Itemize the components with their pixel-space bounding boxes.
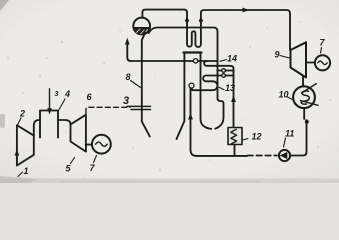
shaft to generator [306,62,315,64]
leader line label 12 [243,139,249,141]
duct from chamber to gas turbine [58,120,71,125]
svg-text:1: 1 [24,166,29,176]
valve on superheated steam line (right) [199,17,203,24]
leader line label 5 [71,158,75,164]
condenser 10 [293,84,318,108]
svg-text:12: 12 [252,132,262,142]
condensate rail [197,155,248,157]
compressor 2 (gas-turbine set, bottom left) [17,125,34,165]
leader line label 11 [284,138,286,147]
condensate pump 11 [279,150,290,161]
compressor discharge duct to combustion chamber [34,120,40,136]
gas turbine 5 [71,115,86,152]
svg-text:2: 2 [19,109,25,119]
valve on saturated steam line (left) [185,17,189,24]
leader line label 7 left [94,156,97,163]
generator 7 (right) [315,55,330,70]
superheater hairpin tubes in boiler top [187,28,201,48]
boiler casing 8 [177,53,212,140]
shaft turbine-generator [86,144,92,146]
wire: drum top to steam valve line [142,10,187,28]
steam drum [133,18,150,35]
leader line label 14 [220,60,227,62]
feedwater riser to drum with arrow [125,38,131,61]
coil headers with fittings to heater riser [218,69,234,78]
svg-text:14: 14 [227,54,237,64]
svg-text:13: 13 [225,83,235,93]
wire pump to condenser [290,120,306,156]
fuel inlet arrow 3 into chamber [47,89,52,115]
leader line label 8 [131,81,141,88]
drum outlet header across boiler [149,28,224,129]
heater 12 riser with arrow [231,71,236,128]
heater 12 bottom port to rail [234,145,236,156]
leader line label 1 [18,172,23,177]
svg-text:8: 8 [126,72,131,82]
economizer coil 13 [192,76,218,91]
riser from bottom rail to economizer with arrow [188,88,196,156]
gas-water heater 12 [228,128,242,145]
steam line to steam turbine [201,10,290,50]
exhaust steam pipe to condenser [302,76,304,87]
svg-text:3: 3 [123,95,129,107]
fitting circle on feed line [193,59,197,63]
dashed link 6 from gas turbine to boiler gas duct [86,107,130,113]
svg-text:10: 10 [279,90,289,100]
combustion chamber 4 [40,111,58,138]
junction dot [305,120,309,124]
svg-text:3: 3 [55,91,59,98]
leader line label 7 right [321,48,322,54]
fitting circle on economizer inlet [189,83,194,88]
svg-text:4: 4 [64,89,70,99]
svg-text:9: 9 [275,50,280,60]
drum downcomer / boiler gas duct 8 [142,33,150,137]
generator 7 (left) [92,135,111,154]
svg-text:11: 11 [285,129,294,139]
leader line label 2 [18,118,22,125]
air inlet arrow (1) on compressor suction edge [15,149,20,162]
flow arrow on steam line [243,8,250,13]
feed line through boiler (economizer outlet) [131,60,218,62]
condenser drain stub [303,109,305,119]
leader line label 9 [280,56,290,59]
leader line label 13 [219,87,224,90]
dashed condensate line from pump to heater [248,155,278,157]
superheater coil 14 [204,61,233,71]
steam turbine 9 [291,42,307,77]
leader line label 10 [288,97,294,100]
damper / grate 3 on gas duct [127,106,151,109]
leader line label 4 [59,99,66,111]
